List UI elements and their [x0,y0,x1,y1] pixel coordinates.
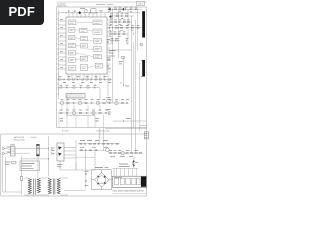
mid-right label pair [119,61,123,63]
regulator internal label [114,177,122,179]
PDF badge [0,0,44,25]
transformer bottom wires [24,194,49,196]
IC601 bottom pin stubs [68,74,104,80]
relay cluster parts upper [80,143,82,144]
transistor Q605 [84,9,87,12]
sheet number box E2-1 [136,2,145,5]
degauss relay coil [36,145,39,157]
wires down from strip [99,88,101,100]
svg-text:G1F1 SWITCHING POWER SUPPLY: G1F1 SWITCHING POWER SUPPLY [113,189,145,192]
transformer T601 right winding [37,179,40,193]
AC crossing wires [6,149,10,154]
bridge enclosure box [92,170,112,190]
more resistors right [126,152,128,153]
chain drop wires to divider [59,115,104,128]
primary feed small box [20,176,22,180]
page top rule [57,1,147,3]
right field junction dots [111,8,114,11]
junction label mid [126,118,131,120]
transistor Q606 bottom [121,151,124,154]
secondary wires [60,177,68,179]
cluster labels row2 [80,146,84,148]
label above top wire [80,7,85,9]
secondary winding pair right [57,179,60,194]
bridge rectifier circle [98,176,106,184]
IC601 internal wires [75,22,95,67]
transistor Q601 dark [58,146,62,149]
transistor Q603 [105,148,109,152]
svg-text:REGULATOR: REGULATOR [14,138,25,141]
degauss vertical wires [2,155,4,192]
IC601 internal function blocks [68,20,102,71]
wires down from relay box [59,161,61,170]
right field vertical wires [113,9,140,153]
right field horizontal wires [105,9,147,128]
svg-text:TO DEFLECTION: TO DEFLECTION [96,129,110,132]
label AC input [10,144,15,146]
diode bridge D601-D604 diamond [94,173,108,187]
block pin risers [114,168,136,176]
link wire horizontal [67,115,95,117]
cluster lower parts [80,150,82,151]
vertical feed wire [48,136,50,176]
under-IC component row parts [59,79,61,80]
resistor R672 below chains [96,120,98,121]
diode D607 dark diamond [109,15,112,18]
diode D606 dark [122,8,124,11]
IF transformer box T602 [91,9,96,13]
vertical parts above block [132,162,133,165]
top supply wire [59,12,140,14]
relay cluster wire upper [78,143,120,145]
page background [0,0,149,198]
chain junction dots [66,112,69,115]
left bus pin ticks [57,14,59,94]
cluster lower wire link [76,156,95,158]
AC plug terminal upper [2,147,4,149]
resistor R641 [100,10,102,11]
bottom horizontal bus [3,191,22,193]
bottom section frame [1,134,147,196]
svg-text:MCL-5 SYS: MCL-5 SYS [14,136,25,139]
sheet part number text [96,4,105,6]
fold crease bar upper [142,11,145,37]
resistor R671 below chains [60,120,62,121]
inter-chain connector stubs [62,105,100,111]
switching transformer T601 left winding [28,179,31,194]
power switch label box [20,161,40,171]
box pin wires [64,147,76,149]
line filter LF601 [11,147,16,157]
filter capacitor C605 [67,10,70,12]
IC601 main jungle IC outline [66,17,107,74]
IC601 block labels [70,22,101,69]
regulator internal sub-boxes [114,178,140,185]
junction dots on top wire [66,12,67,13]
connector tab right edge [144,132,148,139]
IC601 left pin stubs [59,21,66,69]
IC601 top pin stubs [69,13,105,17]
transistor Q655 near crease [140,43,143,46]
vertical diode string to block [133,156,135,168]
capacitor C651 [107,41,110,43]
dark diamond D600 [78,11,81,14]
bridge AC terminals [92,179,95,181]
secondary core [52,179,54,195]
right chain wire [108,152,143,154]
chain B parts [60,112,62,113]
block bottom wire [113,192,146,194]
regulator black heatsink [141,177,146,187]
AC plug terminal lower [2,152,4,154]
mid-right labels [109,50,116,52]
bus wires across bottom section [60,169,95,171]
riser wires to top section [99,128,101,144]
junction dot lower [122,84,125,87]
labels under chain [110,155,115,157]
vertical bus from box [75,140,77,170]
resistor R659 [108,59,110,60]
transistor Q652 [107,99,111,103]
bridge diode arrows [97,175,106,184]
wire drop to fuse [21,156,23,177]
coil down riser [37,156,39,179]
diode D605 dark [108,8,110,11]
transformer top wires [24,177,28,179]
junction box mid-right [122,56,125,58]
relay driver box [57,143,64,161]
bridge label D601-D604 [95,167,103,169]
ceramic capacitor C606 [73,10,76,12]
right field resistor/cap scatter [107,8,110,10]
capacitor C652 small [107,65,110,67]
svg-text:B+ 115V: B+ 115V [62,129,70,132]
secondary winding pair left [48,179,51,194]
smoothing capacitors C601 [85,173,88,175]
spark gap arrows [51,149,54,154]
second under-IC row [58,87,101,89]
cluster wire lower [78,149,106,151]
top section frame [57,7,147,196]
under-IC component row wire [58,79,113,81]
coil junction dots [48,148,49,149]
wires from line filter [15,147,49,149]
AC terminal labels [7,146,11,148]
svg-text:KV-2184MT: KV-2184MT [57,3,66,6]
cluster drop wires [94,151,96,170]
transformer core [33,179,35,195]
resistor R661 vertical [109,112,110,115]
fold crease bar lower [142,60,145,77]
svg-text:E2-1: E2-1 [139,3,143,6]
coil end blobs [37,144,40,146]
link wire vertical [66,95,68,116]
chain A parts [60,101,63,104]
secondary label text [119,163,128,165]
fuse F601 [12,161,16,163]
relay cluster labels [80,139,85,141]
regulator hybrid block [113,176,147,187]
IC601 right pin stubs [107,20,111,72]
chain B wire [58,112,111,114]
chain A wire [58,102,129,104]
R612 resistor chain [109,152,111,153]
riser top wire [113,167,138,169]
left bus wire [58,10,60,100]
svg-text:POWER: POWER [31,136,38,139]
driver box label text [57,163,63,165]
left rail pin labels [60,20,63,68]
ceramic filter connector strip [66,94,85,99]
transistor Q602 dark [58,153,62,156]
